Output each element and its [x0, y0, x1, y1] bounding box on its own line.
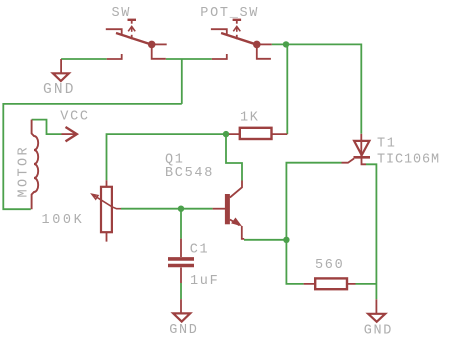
svg-text:GND: GND: [364, 323, 393, 338]
wire collector path: [226, 134, 242, 180]
wire 560 right to GND rail: [356, 164, 377, 299]
wire top rail to SCR anode: [272, 44, 362, 133]
switch POT_SW pivot: [253, 41, 261, 49]
svg-text:100K: 100K: [42, 213, 85, 228]
svg-text:POT_SW: POT_SW: [200, 6, 259, 21]
junction dot top: [283, 41, 289, 47]
motor inductor: [32, 120, 39, 210]
capacitor C1: [168, 239, 194, 283]
svg-text:C1: C1: [190, 243, 210, 258]
junction dot collector/1K: [223, 131, 229, 137]
svg-text:BC548: BC548: [165, 166, 214, 181]
wire SW to POT_SW bottom: [166, 58, 212, 60]
wire C1 top: [180, 209, 182, 239]
wire GND to SW pin: [61, 58, 107, 60]
wire emitter to dot: [244, 239, 286, 241]
resistor 560: [304, 278, 356, 289]
ground C1 symbol: [173, 299, 190, 321]
switch SW: [106, 20, 167, 59]
svg-text:MOTOR: MOTOR: [17, 145, 32, 198]
wire 1K right to top dot: [286, 44, 288, 134]
switch POT_SW: [211, 20, 272, 59]
potentiometer 100K: [92, 180, 121, 241]
ground top symbol: [53, 59, 69, 81]
wire pot top rail: [107, 134, 227, 180]
svg-text:VCC: VCC: [60, 109, 89, 124]
svg-text:TIC106M: TIC106M: [377, 152, 440, 167]
svg-text:T1: T1: [377, 137, 397, 152]
wire motor top to VCC: [32, 120, 62, 135]
transistor Q1: [213, 181, 245, 239]
wire base: [121, 208, 213, 210]
svg-text:GND: GND: [169, 323, 198, 338]
wire C1 bottom: [180, 283, 182, 299]
svg-text:SW: SW: [112, 6, 132, 21]
junction dot base: [178, 206, 184, 212]
wire long left rail: [3, 104, 182, 209]
svg-text:1K: 1K: [240, 111, 260, 126]
transistor Q1 emitter arrow: [231, 218, 242, 227]
wire vertical drop from switch row to left rail: [181, 59, 183, 104]
svg-text:GND: GND: [43, 82, 76, 98]
supply VCC arrow: [62, 127, 77, 141]
thyristor T1: [342, 134, 371, 165]
switch SW pivot: [148, 41, 156, 49]
wire 560 left: [286, 240, 303, 284]
svg-text:560: 560: [315, 258, 344, 273]
wire gate rail: [286, 163, 341, 240]
svg-text:1uF: 1uF: [190, 274, 219, 289]
resistor 1K: [229, 128, 287, 139]
ground right symbol: [368, 299, 385, 322]
junction dot emitter: [283, 237, 289, 243]
